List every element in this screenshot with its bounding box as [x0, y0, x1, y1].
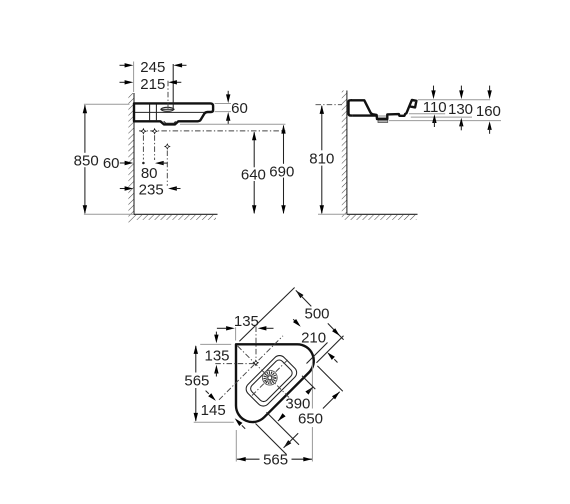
floor extension (grey) — [318, 213, 347, 215]
fixing hole cross 1 — [140, 128, 147, 135]
tap hole cross — [252, 359, 259, 366]
rim level dash-dot at wall — [316, 104, 343, 106]
svg-text:500: 500 — [304, 305, 329, 322]
svg-text:640: 640 — [241, 167, 266, 184]
dim 650 line — [282, 440, 291, 449]
ext line wall top (grey) — [133, 62, 135, 93]
long extension line at trap bottom level (grey) — [180, 123, 285, 125]
apex diagonal extension for 650 — [317, 366, 342, 391]
wall face line — [133, 93, 135, 215]
dim 145 arrow lower — [233, 417, 242, 426]
basin outline (thick) — [134, 103, 213, 124]
svg-text:235: 235 — [139, 182, 164, 199]
svg-text:110: 110 — [423, 99, 447, 116]
tap hole — [161, 107, 174, 111]
floor line — [347, 213, 418, 215]
rim extension line (grey) — [418, 99, 491, 101]
dim 215 arrows — [120, 81, 127, 83]
level 160 extension line — [389, 120, 501, 122]
dim 60 left arrow — [120, 162, 126, 164]
svg-text:650: 650 — [298, 410, 323, 427]
svg-text:810: 810 — [309, 150, 334, 167]
svg-text:565: 565 — [184, 373, 209, 390]
dim 235 arrows — [120, 188, 126, 190]
svg-text:80: 80 — [141, 165, 158, 182]
dim 210 upper arrow — [293, 319, 296, 322]
apex vertical extension (grey) — [311, 363, 313, 409]
dim 215 centerline — [167, 81, 169, 113]
dim 210 lower arrow — [326, 351, 335, 360]
svg-text:60: 60 — [103, 155, 120, 172]
wall hatch band — [128, 93, 134, 223]
dim 60 right arrows — [227, 91, 229, 97]
wall hatch band — [342, 91, 347, 220]
basin section outline (thick) — [351, 100, 416, 119]
top edge extension (grey) — [200, 343, 231, 345]
bowl inner outline — [249, 358, 294, 403]
drain notch hatch fill — [377, 115, 387, 119]
dim 60 right ext lines — [215, 103, 231, 105]
apex tangent extension — [317, 336, 344, 363]
basin section wall bracket (thick) — [349, 100, 353, 115]
dim 245 line — [172, 64, 174, 108]
dim 850 top ext (grey) — [84, 103, 130, 105]
fixing holes centerline (dash-dot) — [139, 130, 285, 132]
bottom point extension (grey) — [194, 421, 234, 423]
svg-text:210: 210 — [301, 329, 326, 346]
dim 80 arrow — [155, 161, 164, 165]
dim 640 line — [253, 132, 255, 167]
bowl outer outline — [243, 353, 299, 409]
level 130 extension line — [411, 116, 472, 118]
basin inner vertical line 1 — [149, 105, 151, 121]
left edge bottom extension (grey) — [235, 430, 237, 462]
dim 135 top: left ext (grey) — [235, 327, 237, 340]
dim 565 left line — [195, 346, 197, 373]
svg-text:160: 160 — [476, 103, 501, 120]
svg-text:850: 850 — [74, 152, 99, 169]
drain stub block below notch — [378, 120, 388, 123]
dim 135 left arrows — [215, 332, 217, 335]
dim 810 line — [321, 106, 323, 151]
basin inner vertical line 2 — [155, 105, 157, 121]
floor hatch band — [134, 215, 216, 220]
bottom point diagonal extension for 650 — [256, 424, 287, 455]
tap cross vertical centerline — [255, 327, 257, 365]
cross1 centerline — [142, 135, 144, 159]
floor extension (grey, under 850 dim) — [84, 213, 134, 215]
main axis dash-dot — [238, 346, 291, 399]
basin inner horizontal line — [135, 111, 205, 113]
dim 130 arrows — [460, 86, 462, 93]
basin underside left (thick) — [353, 114, 377, 116]
drain hole cross 3 — [164, 143, 171, 150]
corner P1 diagonal extension — [239, 288, 294, 342]
dim 390 line — [305, 385, 314, 394]
fixing hole cross 2 — [151, 128, 158, 135]
svg-text:215: 215 — [140, 76, 165, 93]
dim 135 top arrows — [217, 327, 226, 329]
dim 500 line — [294, 289, 303, 298]
pentagon basin outline (thick) — [236, 344, 314, 422]
svg-text:690: 690 — [269, 163, 294, 180]
level 110 extension line — [409, 113, 445, 115]
dim 145 arrow upper — [206, 391, 209, 394]
drain symbol — [262, 370, 277, 385]
svg-text:130: 130 — [448, 101, 473, 118]
dim 160 arrows — [489, 86, 491, 93]
wall face line — [346, 91, 348, 215]
dim 565 bottom line — [237, 458, 260, 460]
svg-text:145: 145 — [201, 402, 226, 419]
dim 110 arrows — [433, 86, 435, 93]
svg-text:60: 60 — [231, 100, 248, 117]
floor line — [134, 213, 218, 215]
bowl lower-left side extension — [267, 412, 300, 445]
tap cross diagonal centerline — [219, 336, 283, 400]
floor hatch band — [347, 215, 417, 220]
trap inner line — [164, 121, 176, 123]
dim 690 line — [283, 126, 285, 164]
bowl front side extension — [307, 343, 328, 364]
cross3 centerline — [166, 151, 168, 186]
bowl upper-right side extension — [302, 376, 315, 389]
svg-text:245: 245 — [140, 59, 165, 76]
cross2 centerline — [154, 135, 156, 160]
tap cross horizontal centerline — [215, 363, 257, 365]
svg-text:135: 135 — [234, 313, 259, 330]
drain cross-axis dash-dot — [252, 360, 288, 396]
svg-text:135: 135 — [204, 348, 229, 365]
dim 850 line — [84, 105, 86, 153]
svg-text:565: 565 — [263, 452, 288, 469]
